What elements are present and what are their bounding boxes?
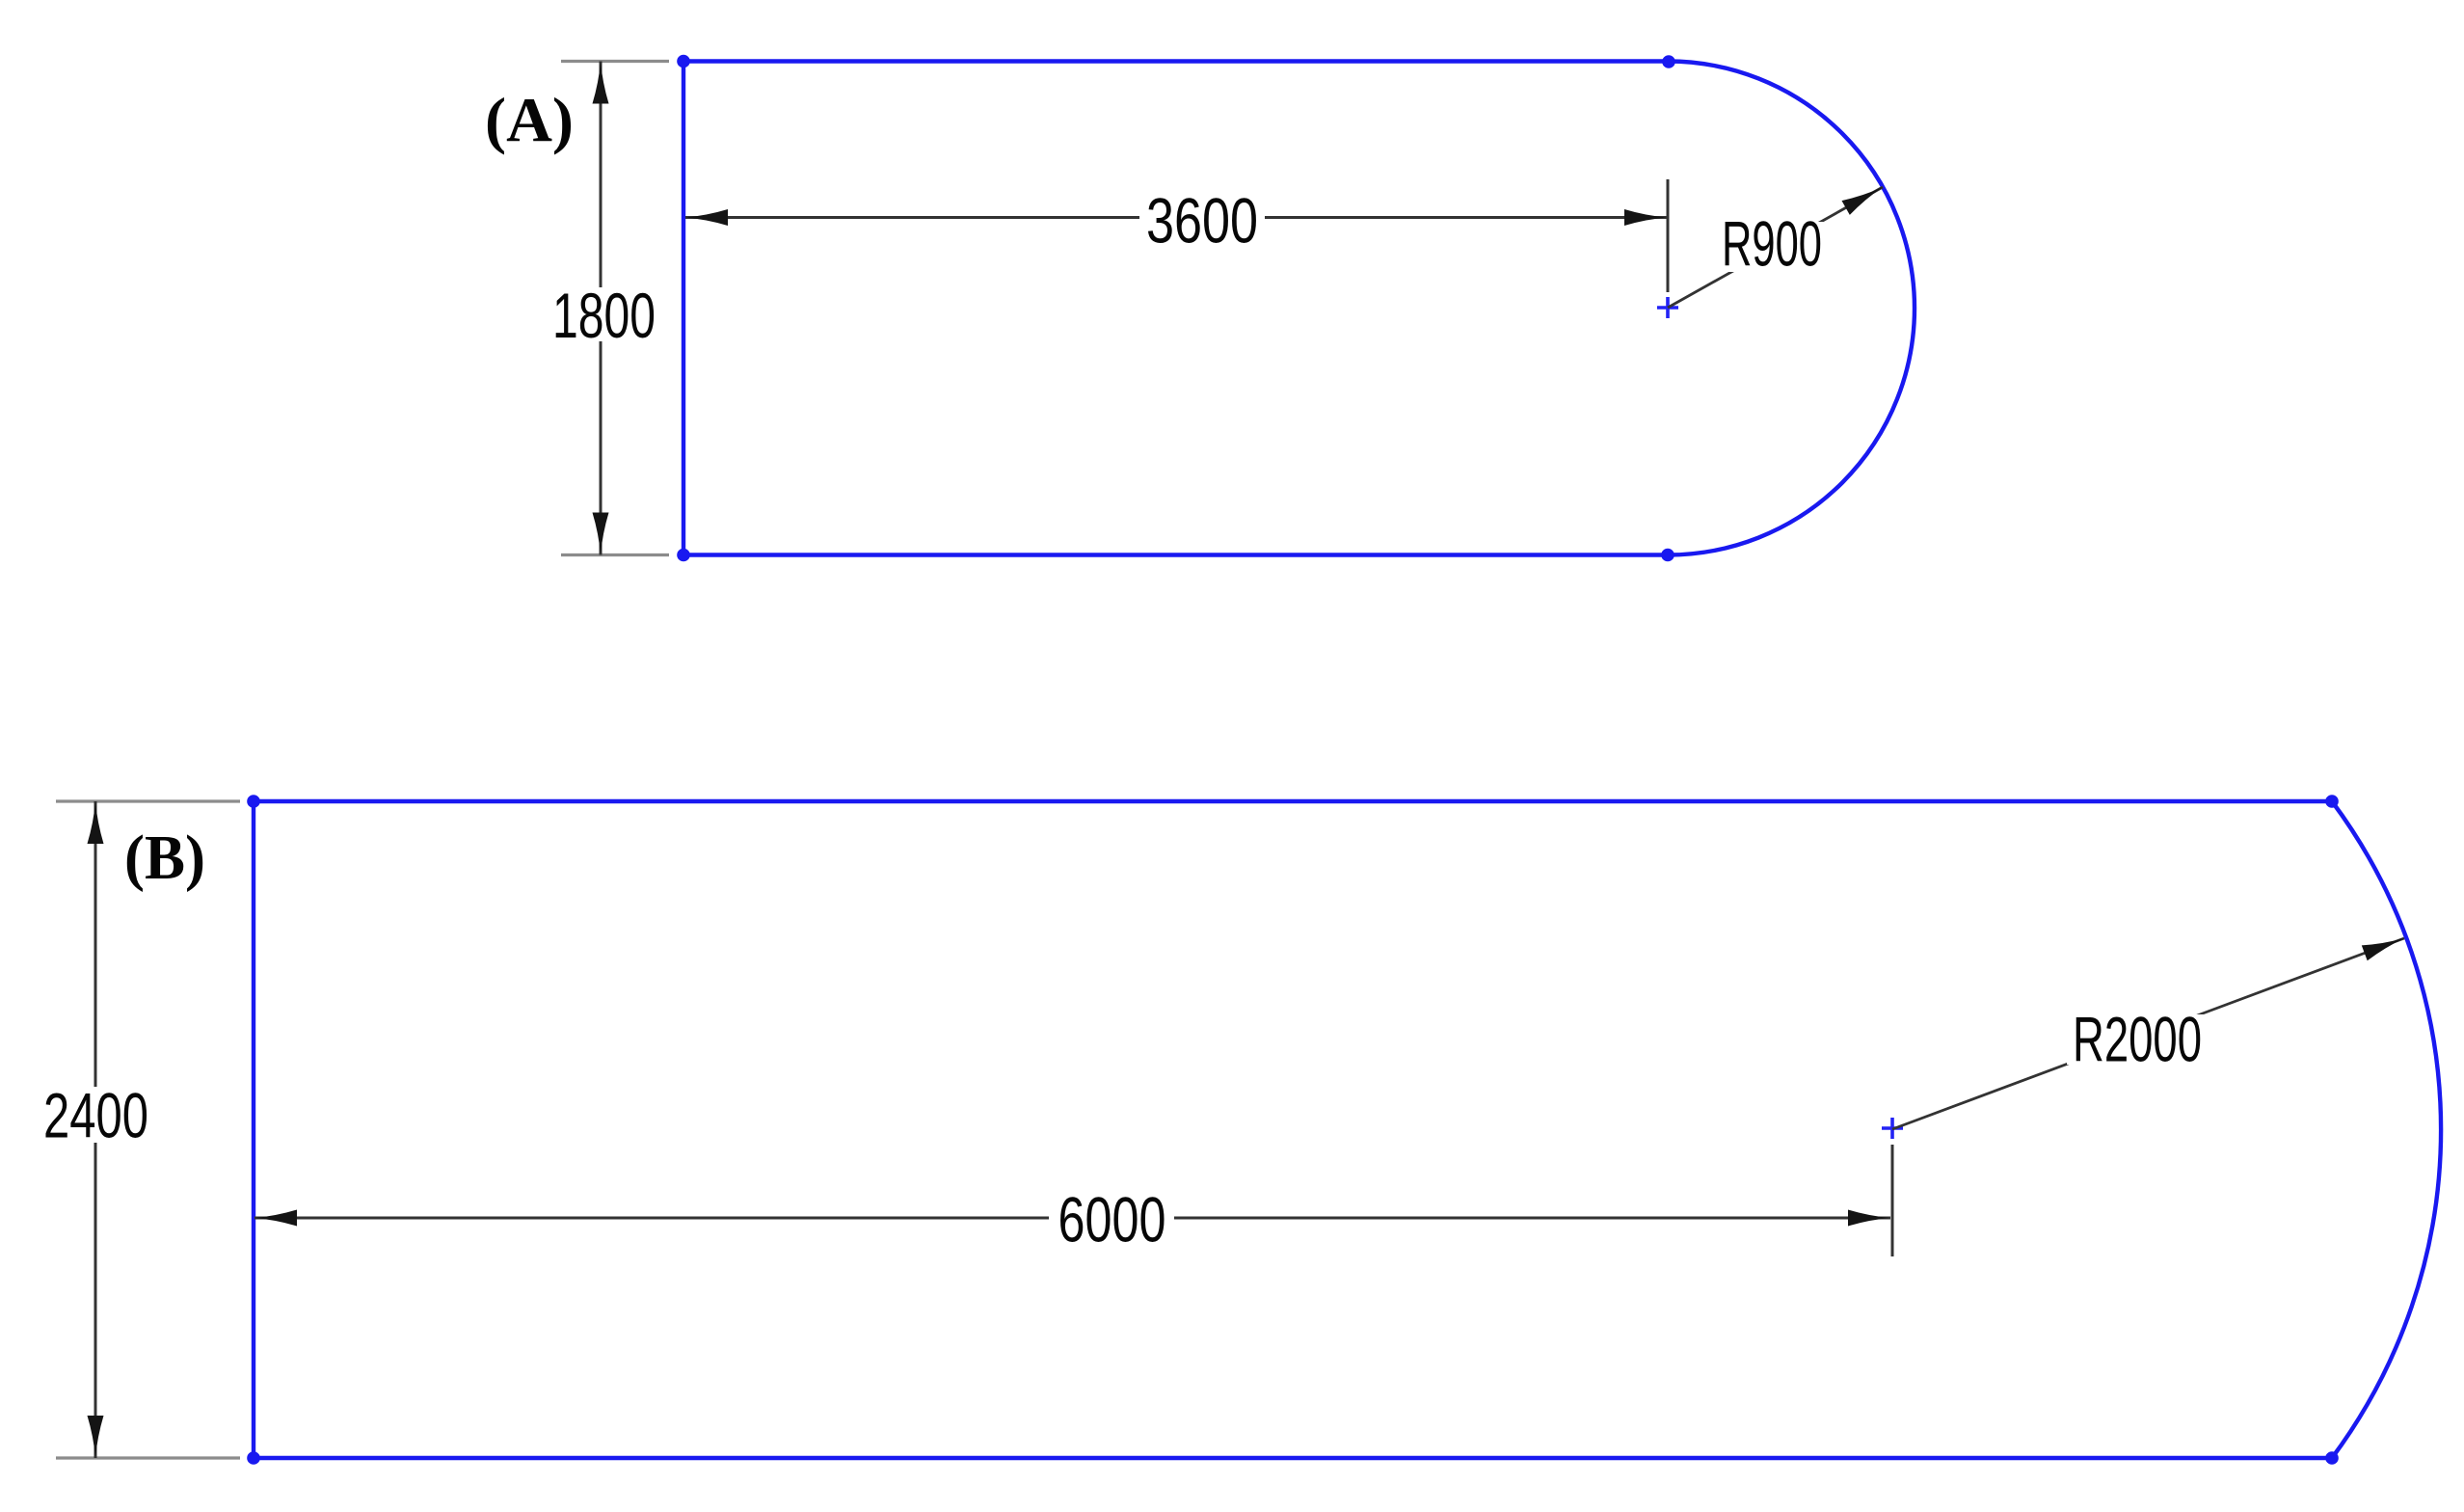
vertex dot A top-right — [1662, 55, 1675, 68]
dimension 2400 arrow up — [88, 801, 104, 844]
extension line B top (for 2400) — [56, 799, 240, 802]
dimension 2400 text mask — [40, 1087, 152, 1143]
dimension 3600 text mask — [1139, 193, 1265, 247]
radius R900 text mask — [1720, 222, 1826, 272]
dimension 1800 line — [600, 62, 603, 555]
vertex dot A top-left — [677, 55, 690, 68]
dimension 3600 line — [685, 216, 1667, 219]
svg-text:R2000: R2000 — [2073, 1004, 2202, 1075]
vertex dot B bottom-left — [247, 1451, 260, 1465]
shape B outline (slot profile, 2400 x 6000 with R2000 end) — [254, 801, 2441, 1458]
radius R2000 leader line — [1892, 938, 2404, 1129]
radius R2000 arrowhead — [2362, 938, 2404, 960]
vertex dot A bottom-left — [677, 549, 690, 562]
vertex dot B bottom-right — [2325, 1451, 2339, 1465]
extension line B bottom (for 2400) — [56, 1456, 240, 1459]
dimension 1800 text mask — [549, 287, 657, 341]
shape A outline (slot profile, 1800 x 3600 with R900 end) — [683, 62, 1915, 555]
dimension 1800 arrow down — [593, 513, 609, 555]
dimension 6000 arrow right — [1848, 1210, 1890, 1227]
radius R900 arrowhead — [1842, 187, 1884, 215]
vertex dot B top-right — [2325, 795, 2339, 808]
extension line A bottom (for 1800) — [561, 553, 669, 556]
dimension 3600 arrow left — [685, 209, 728, 226]
extension tick for 6000 at arc center — [1891, 1145, 1894, 1256]
arc center cross A — [1657, 297, 1678, 318]
dimension 2400 line — [94, 801, 97, 1458]
svg-text:(A): (A) — [485, 86, 574, 156]
svg-text:3600: 3600 — [1146, 185, 1258, 256]
svg-text:1800: 1800 — [552, 280, 656, 351]
svg-text:2400: 2400 — [43, 1080, 148, 1151]
svg-text:R900: R900 — [1722, 208, 1822, 280]
dimension 6000 text mask — [1049, 1195, 1174, 1247]
dimension 3600 arrow right — [1624, 209, 1667, 226]
dimension 2400 arrow down — [88, 1416, 104, 1458]
vertex dot B top-left — [247, 795, 260, 808]
svg-text:(B): (B) — [124, 823, 205, 893]
vertex dot A bottom-right — [1661, 549, 1674, 562]
extension tick for 3600 at arc center — [1667, 179, 1670, 292]
arc center cross B — [1882, 1118, 1903, 1139]
dimension 1800 arrow up — [593, 62, 609, 104]
svg-text:6000: 6000 — [1058, 1184, 1166, 1255]
radius R2000 text mask — [2067, 1014, 2208, 1065]
dimension 6000 arrow left — [254, 1210, 297, 1227]
dimension 6000 line — [254, 1217, 1890, 1220]
radius R900 leader line — [1668, 187, 1883, 308]
extension line A top (for 1800) — [561, 60, 669, 63]
